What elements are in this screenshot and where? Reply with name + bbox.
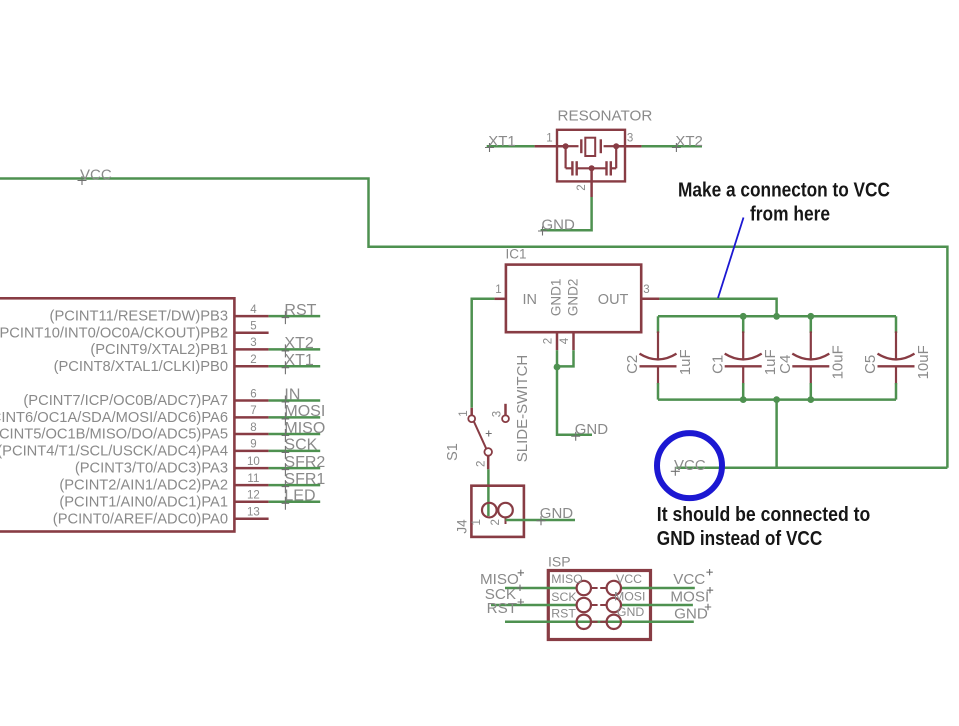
switch S1 pin 3 pad xyxy=(492,411,509,422)
wire SCK net (left row 2) xyxy=(491,604,577,607)
J4 pin 1 pad xyxy=(471,503,497,526)
svg-text:(PCINT8/XTAL1/CLKI)PB0: (PCINT8/XTAL1/CLKI)PB0 xyxy=(54,359,228,375)
wire capacitor top rail xyxy=(658,315,896,318)
label XT1 xyxy=(485,133,516,152)
svg-text:C5: C5 xyxy=(862,355,879,374)
microcontroller pin 10 net SFR2 xyxy=(75,454,326,477)
wire VCC net from left edge to top-right rail xyxy=(0,179,947,468)
wire VCC net (right row 1) xyxy=(621,587,695,590)
svg-text:1: 1 xyxy=(458,410,470,416)
svg-text:9: 9 xyxy=(250,439,256,451)
svg-text:IC1: IC1 xyxy=(506,247,527,262)
wire switch to J4 xyxy=(487,469,490,516)
svg-text:S1: S1 xyxy=(445,443,461,461)
svg-text:10: 10 xyxy=(247,456,260,468)
svg-text:RESONATOR: RESONATOR xyxy=(558,108,653,125)
svg-text:C2: C2 xyxy=(624,355,641,374)
svg-text:2: 2 xyxy=(250,354,256,366)
wire RST-GND net (row 3) xyxy=(505,621,694,624)
svg-text:ISP: ISP xyxy=(548,554,571,570)
svg-text:GND2: GND2 xyxy=(565,279,580,317)
annotation line 2 xyxy=(750,202,830,225)
svg-text:SCK: SCK xyxy=(284,437,317,454)
microcontroller pin 9 net SCK xyxy=(0,437,320,460)
svg-text:12: 12 xyxy=(247,490,260,502)
svg-text:XT2: XT2 xyxy=(284,335,313,352)
wire capacitor bottom rail xyxy=(658,398,896,401)
svg-text:XT1: XT1 xyxy=(284,352,313,369)
svg-text:from here: from here xyxy=(750,202,830,225)
svg-text:MOSI: MOSI xyxy=(614,589,645,603)
regulator pin 1 xyxy=(494,284,506,299)
svg-text:GND: GND xyxy=(617,605,644,619)
regulator pin 4 xyxy=(559,332,574,350)
svg-text:13: 13 xyxy=(247,507,260,519)
wire J4 GND net xyxy=(506,519,576,522)
svg-text:C1: C1 xyxy=(709,355,726,374)
svg-text:(PCINT4/T1/SCL/USCK/ADC4)PA4: (PCINT4/T1/SCL/USCK/ADC4)PA4 xyxy=(0,444,228,460)
svg-text:3: 3 xyxy=(643,284,649,296)
resonator pin 2 xyxy=(576,168,591,197)
svg-text:GND: GND xyxy=(575,421,609,438)
capacitor C1 1uF xyxy=(709,316,779,399)
label J4 xyxy=(455,519,470,534)
svg-text:SCK: SCK xyxy=(551,590,577,604)
svg-text:RST: RST xyxy=(284,302,316,319)
svg-text:3: 3 xyxy=(492,411,504,417)
J4 pin 2 pad xyxy=(490,503,513,526)
svg-text:It should be connected to: It should be connected to xyxy=(657,503,871,526)
label VCC (bottom) xyxy=(671,457,706,476)
resonator pin 1 xyxy=(535,133,566,147)
svg-text:RST: RST xyxy=(551,607,576,621)
svg-text:IN: IN xyxy=(284,386,300,403)
regulator texts xyxy=(523,279,629,317)
svg-text:GND instead of VCC: GND instead of VCC xyxy=(657,527,823,550)
label IC1 xyxy=(506,247,527,262)
svg-text:GND: GND xyxy=(674,606,708,623)
label GND (resonator) xyxy=(538,216,575,235)
svg-text:11: 11 xyxy=(247,473,259,485)
svg-text:(PCINT11/RESET/DW)PB3: (PCINT11/RESET/DW)PB3 xyxy=(50,309,228,325)
regulator pin 3 xyxy=(641,284,659,299)
svg-text:2: 2 xyxy=(490,519,502,525)
junctions capacitor top rail xyxy=(740,313,814,320)
ISP inner pin names right xyxy=(614,572,645,619)
junctions capacitor bottom rail xyxy=(740,396,814,403)
svg-text:MOSI: MOSI xyxy=(284,403,325,420)
svg-text:(PCINT5/OC1B/MISO/DO/ADC5)PA5: (PCINT5/OC1B/MISO/DO/ADC5)PA5 xyxy=(0,427,228,443)
microcontroller IC body (ATtiny) xyxy=(0,298,234,531)
svg-text:VCC: VCC xyxy=(673,571,705,588)
connector J4 box xyxy=(471,486,524,537)
label MOSI (outside) xyxy=(670,587,713,606)
svg-text:SFR1: SFR1 xyxy=(284,471,325,488)
ISP right pin row 1 xyxy=(600,581,621,595)
label MISO (outside) xyxy=(480,570,524,588)
microcontroller pin 5 xyxy=(0,321,269,342)
microcontroller pin 6 net IN xyxy=(23,386,320,409)
label ISP xyxy=(548,554,571,570)
capacitor C4 10uF xyxy=(777,316,847,399)
capacitor C5 10uF xyxy=(862,316,932,399)
blue pointer line xyxy=(718,218,744,299)
svg-text:OUT: OUT xyxy=(598,292,629,308)
resonator internal capacitors xyxy=(566,146,617,175)
microcontroller pin 3 net XT2 xyxy=(90,335,320,358)
switch S1 pin 1 stub xyxy=(470,408,473,416)
svg-text:(PCINT3/T0/ADC3)PA3: (PCINT3/T0/ADC3)PA3 xyxy=(75,461,228,477)
svg-text:SLIDE-SWITCH: SLIDE-SWITCH xyxy=(514,355,531,463)
svg-text:4: 4 xyxy=(250,304,257,316)
regulator IC1 box xyxy=(506,265,641,333)
svg-text:GND: GND xyxy=(540,505,574,522)
svg-text:LED: LED xyxy=(284,488,315,505)
label GND (J4) xyxy=(537,505,574,525)
svg-text:MISO: MISO xyxy=(551,572,582,586)
svg-text:1uF: 1uF xyxy=(677,349,694,375)
svg-text:J4: J4 xyxy=(455,519,470,534)
regulator pin 2 xyxy=(543,332,558,350)
annotation line 4 xyxy=(657,527,823,550)
label VCC (outside) xyxy=(673,569,713,588)
ISP inner pin names left xyxy=(551,572,582,621)
ISP left pin row 1 xyxy=(577,581,598,595)
label S1 xyxy=(445,443,461,461)
capacitor C2 1uF xyxy=(624,316,694,399)
resonator XT title xyxy=(558,108,653,125)
wire MOSI net (right row 2) xyxy=(621,604,693,607)
svg-text:1: 1 xyxy=(546,133,552,145)
svg-text:Make a connecton to VCC: Make a connecton to VCC xyxy=(678,179,890,202)
label SLIDE-SWITCH xyxy=(514,355,531,463)
svg-text:MISO: MISO xyxy=(284,420,325,437)
junction center (resonator) xyxy=(589,165,595,171)
svg-text:(PCINT10/INT0/OC0A/CKOUT)PB2: (PCINT10/INT0/OC0A/CKOUT)PB2 xyxy=(0,325,228,341)
wire OUT net to capacitor rail xyxy=(659,299,776,317)
microcontroller pin 2 net XT1 xyxy=(54,352,321,375)
microcontroller pin 8 net MISO xyxy=(0,420,325,443)
resonator XT body xyxy=(557,130,625,182)
svg-text:SFR2: SFR2 xyxy=(284,454,325,471)
switch S1 lever xyxy=(474,422,492,450)
svg-text:3: 3 xyxy=(627,133,633,145)
svg-text:(PCINT2/AIN1/ADC2)PA2: (PCINT2/AIN1/ADC2)PA2 xyxy=(59,478,228,494)
svg-text:10uF: 10uF xyxy=(830,345,847,379)
annotation line 3 xyxy=(657,503,871,526)
label RST (outside) xyxy=(487,599,524,617)
svg-text:8: 8 xyxy=(250,422,256,434)
junction regulator GND xyxy=(554,364,561,371)
svg-text:2: 2 xyxy=(543,338,555,344)
svg-text:10uF: 10uF xyxy=(915,345,932,379)
J4 pin 2 stub xyxy=(505,517,507,524)
svg-text:VCC: VCC xyxy=(616,572,642,586)
microcontroller pin 13 xyxy=(53,507,269,528)
svg-text:7: 7 xyxy=(250,405,256,417)
microcontroller pin 11 net SFR1 xyxy=(59,471,325,494)
wire MISO net (left row 1) xyxy=(505,587,577,590)
wire IN net to switch xyxy=(472,299,495,408)
header ISP body xyxy=(548,571,650,640)
label SCK (outside) xyxy=(485,585,523,603)
svg-text:IN: IN xyxy=(523,292,538,308)
ISP left pin row 2 xyxy=(577,598,598,612)
label VCC (top left) xyxy=(78,167,112,186)
switch S1 pin 2 stub xyxy=(487,456,490,470)
resonator pin 3 xyxy=(616,133,641,147)
svg-text:(PCINT6/OC1A/SDA/MOSI/ADC6)PA6: (PCINT6/OC1A/SDA/MOSI/ADC6)PA6 xyxy=(0,410,228,426)
switch S1 pin 2 pad xyxy=(476,448,493,467)
label GND (regulator) xyxy=(571,421,608,441)
microcontroller pin 7 net MOSI xyxy=(0,403,325,426)
svg-text:2: 2 xyxy=(476,461,488,467)
blue circle annotation xyxy=(657,433,722,498)
wire XT1 net xyxy=(487,145,535,148)
svg-text:(PCINT7/ICP/OC0B/ADC7)PA7: (PCINT7/ICP/OC0B/ADC7)PA7 xyxy=(23,393,228,409)
svg-text:C4: C4 xyxy=(777,355,794,374)
switch S1 pin 1 pad xyxy=(458,410,475,422)
svg-text:1: 1 xyxy=(495,284,501,296)
label XT2 xyxy=(672,133,703,152)
svg-text:5: 5 xyxy=(250,321,256,333)
annotation line 1 xyxy=(678,179,890,202)
svg-text:RST: RST xyxy=(487,600,517,617)
microcontroller pin 4 net RST xyxy=(50,302,321,325)
svg-text:2: 2 xyxy=(576,184,588,190)
svg-text:6: 6 xyxy=(250,388,256,400)
svg-text:(PCINT9/XTAL2)PB1: (PCINT9/XTAL2)PB1 xyxy=(90,342,228,358)
ISP left pin row 3 xyxy=(577,615,598,629)
svg-text:(PCINT1/AIN0/ADC1)PA1: (PCINT1/AIN0/ADC1)PA1 xyxy=(59,494,228,510)
svg-text:3: 3 xyxy=(250,337,256,349)
switch S1 pin 3 stub xyxy=(504,404,507,416)
label GND (outside) xyxy=(674,604,711,623)
wire XT2 net xyxy=(642,145,702,148)
wire VCC bottom xyxy=(676,467,947,470)
svg-text:(PCINT0/AREF/ADC0)PA0: (PCINT0/AREF/ADC0)PA0 xyxy=(53,511,228,527)
microcontroller pin 12 net LED xyxy=(59,488,320,511)
junction right (resonator) xyxy=(613,143,619,149)
wire capacitor rail to VCC xyxy=(775,400,778,468)
crystal symbol xyxy=(566,138,617,156)
svg-text:GND1: GND1 xyxy=(549,279,564,317)
wire regulator GND net xyxy=(557,350,592,435)
junction left (resonator) xyxy=(563,143,569,149)
svg-text:1: 1 xyxy=(471,519,483,525)
ISP right pin row 2 xyxy=(600,598,621,612)
wire resonator GND xyxy=(541,197,592,230)
svg-text:MOSI: MOSI xyxy=(670,589,709,606)
svg-text:4: 4 xyxy=(559,337,571,344)
ISP right pin row 3 xyxy=(600,615,621,629)
